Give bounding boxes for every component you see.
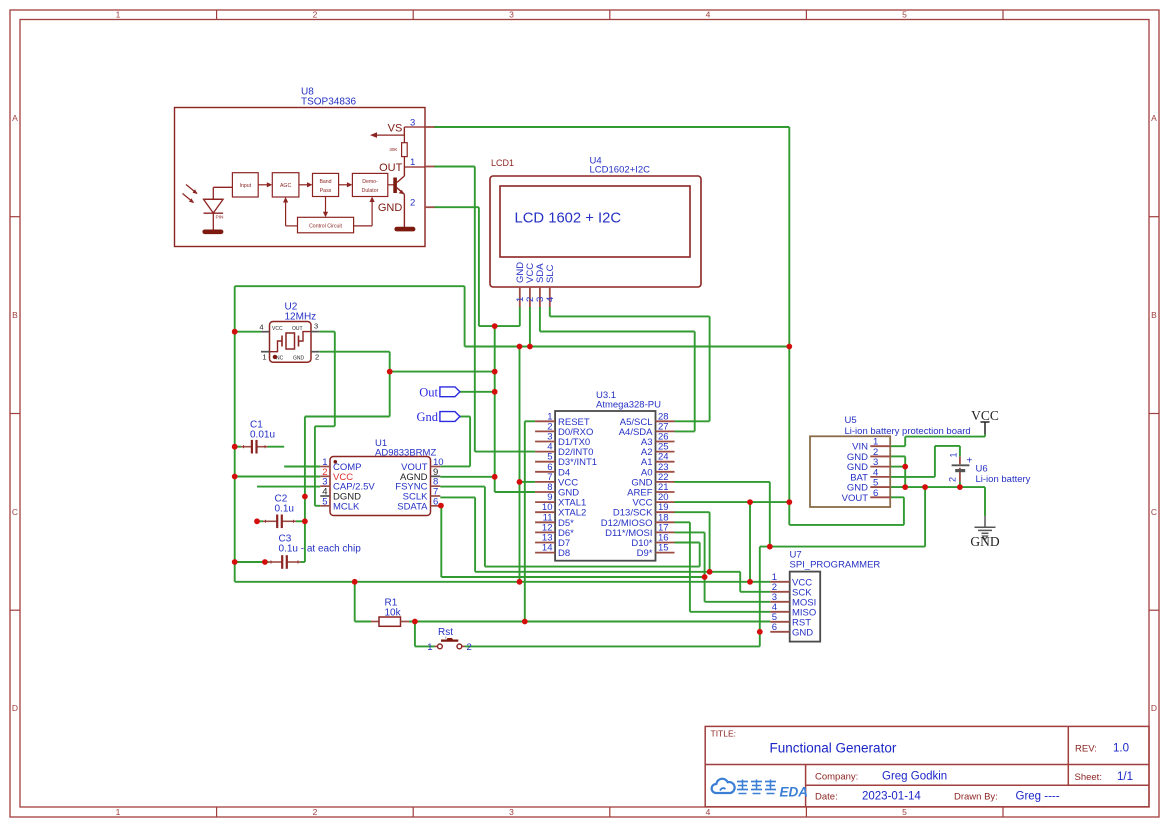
U3 pin 2 D0/RXO — [535, 421, 593, 438]
U8 Control Circuit block — [298, 217, 354, 233]
svg-text:C: C — [12, 507, 18, 517]
svg-text:1: 1 — [949, 452, 959, 457]
U5 pin 1 VIN — [852, 437, 890, 453]
U3 pin 22 GND — [631, 472, 674, 489]
svg-text:VS: VS — [388, 123, 403, 135]
IR receiver U8 TSOP34836 — [175, 87, 426, 247]
svg-text:VOUT: VOUT — [842, 493, 869, 504]
arrow Input to AGC — [258, 184, 268, 186]
svg-text:NC: NC — [276, 356, 284, 362]
svg-text:Out: Out — [419, 385, 438, 399]
svg-text:U6: U6 — [976, 464, 988, 475]
U7 pin 1 VCC — [770, 572, 812, 589]
svg-text:2: 2 — [313, 10, 318, 20]
push button Rst — [427, 627, 472, 653]
battery U6 Li-ion — [948, 452, 1031, 485]
svg-text:2: 2 — [410, 198, 415, 209]
svg-text:Li-ion battery: Li-ion battery — [976, 474, 1031, 485]
arrow Control Circuit to AGC — [283, 197, 298, 226]
svg-text:6: 6 — [433, 496, 438, 507]
U3 pin 28 A5/SCL — [620, 411, 675, 428]
U8 Demodulator block — [352, 173, 387, 196]
U3 pin 13 D7 — [535, 533, 570, 550]
svg-text:D8: D8 — [558, 548, 570, 559]
svg-text:4: 4 — [259, 323, 263, 332]
U2 pin 4 — [259, 323, 269, 332]
U3 pin 19 D13/SCK — [613, 502, 675, 519]
U3 pin 10 XTAL2 — [535, 502, 586, 519]
U3 pin 6 D4 — [535, 462, 570, 479]
U1 pin 7 SCLK — [403, 486, 441, 502]
U3 pin 25 A2 — [641, 442, 675, 459]
svg-text:3: 3 — [509, 807, 514, 817]
svg-text:VCC: VCC — [272, 326, 283, 332]
svg-text:6: 6 — [772, 622, 777, 633]
svg-text:Input: Input — [240, 183, 252, 189]
power flag VCC — [971, 408, 999, 434]
wire junctions — [232, 323, 963, 634]
title block — [705, 726, 1149, 806]
U3 pin 18 D12/MIOSO — [601, 512, 675, 529]
svg-text:3: 3 — [314, 322, 318, 331]
U2 pin 1 NC — [261, 352, 270, 362]
U5 pin 5 GND — [847, 478, 890, 494]
svg-text:1: 1 — [116, 10, 121, 20]
svg-text:Sheet:: Sheet: — [1075, 772, 1102, 783]
photodiode PIN — [183, 185, 233, 231]
transistor Q internal — [393, 167, 404, 227]
svg-text:SDATA: SDATA — [397, 501, 428, 512]
U3 pin 24 A1 — [641, 452, 675, 469]
svg-text:SPI_PROGRAMMER: SPI_PROGRAMMER — [790, 559, 881, 570]
U3 pin 20 VCC — [632, 492, 674, 509]
svg-text:REV:: REV: — [1075, 744, 1097, 755]
svg-text:Pass: Pass — [320, 188, 332, 194]
connector U7 SPI_PROGRAMMER — [790, 550, 881, 642]
U3 pin 1 RESET — [535, 411, 590, 428]
svg-text:LCD1602+I2C: LCD1602+I2C — [590, 165, 651, 176]
U7 pin 6 GND — [770, 622, 813, 639]
U1 pin 9 AGND — [400, 467, 440, 483]
svg-text:5: 5 — [902, 10, 907, 20]
LCD pin 4 SLC — [545, 264, 556, 307]
U5 pin 3 GND — [847, 457, 890, 473]
arrow Band Pass to Control Circuit — [323, 197, 328, 218]
arrow AGC to Band Pass — [299, 184, 309, 186]
svg-text:Greg ----: Greg ---- — [1016, 791, 1060, 803]
U1 pin 10 VOUT — [401, 457, 443, 473]
resistor 30K internal — [389, 127, 407, 167]
net port Out — [419, 385, 460, 399]
capacitor C3 0.1u at each chip — [269, 534, 362, 569]
U3 pin 4 D2/INT0 — [535, 442, 593, 459]
U7 pin 4 MISO — [770, 602, 816, 619]
LCD pin 1 GND — [515, 262, 526, 307]
U8 transistor ground — [394, 227, 415, 232]
svg-text:D9*: D9* — [637, 548, 653, 559]
U3 pin 11 D5* — [535, 512, 574, 529]
U8 pin VS 3 — [370, 118, 435, 138]
svg-text:A: A — [12, 113, 18, 123]
svg-text:LCD1: LCD1 — [491, 158, 514, 168]
svg-text:Band: Band — [319, 179, 331, 185]
svg-text:Dulator: Dulator — [362, 188, 379, 194]
U5 pin 2 GND — [847, 447, 890, 463]
svg-text:B: B — [12, 310, 18, 320]
svg-text:Control Circuit: Control Circuit — [309, 223, 342, 229]
ground symbol GND — [970, 516, 999, 549]
U3 pin 12 D6* — [535, 522, 574, 539]
svg-text:2: 2 — [315, 353, 319, 362]
U2 pin 3 — [311, 322, 319, 332]
svg-text:3: 3 — [410, 118, 415, 129]
U7 pin 2 SCK — [770, 582, 812, 599]
LCD module U4 LCD1602+I2C — [490, 156, 701, 288]
svg-text:B: B — [1151, 310, 1157, 320]
U3 pin 17 D11*/MOSI — [605, 522, 674, 539]
arrow Band Pass to Demodulator — [339, 184, 349, 186]
U1 pin 4 DGND — [320, 486, 361, 502]
svg-text:0.01u: 0.01u — [250, 430, 275, 441]
svg-text:4: 4 — [706, 10, 711, 20]
resistor R1 10k — [371, 598, 409, 627]
capacitor C1 0.01u — [241, 420, 275, 454]
svg-text:1/1: 1/1 — [1117, 771, 1133, 783]
U3 pin 21 AREF — [627, 482, 674, 499]
svg-text:1: 1 — [116, 807, 121, 817]
U3 pin 16 D10* — [631, 533, 674, 550]
wire net — [235, 127, 985, 646]
DDS chip U1 AD9833BRMZ — [330, 438, 436, 516]
U1 pin 6 SDATA — [397, 496, 440, 512]
U8 internal ground — [202, 230, 223, 235]
arrow Control Circuit to Demodulator — [354, 197, 375, 226]
svg-text:Greg Godkin: Greg Godkin — [882, 771, 947, 783]
svg-text:15: 15 — [658, 543, 669, 554]
svg-text:2: 2 — [948, 477, 958, 482]
U8 pin OUT 1 — [379, 157, 434, 174]
svg-text:30K: 30K — [389, 147, 398, 152]
svg-text:SLC: SLC — [545, 264, 556, 283]
EasyEDA logo — [712, 779, 808, 800]
U7 pin 3 MOSI — [770, 592, 816, 609]
crystal oscillator U2 12MHz — [270, 302, 317, 363]
svg-text:1: 1 — [410, 157, 415, 168]
svg-text:LCD 1602 + I2C: LCD 1602 + I2C — [515, 211, 622, 227]
svg-text:Demo-: Demo- — [362, 179, 378, 185]
svg-text:Functional Generator: Functional Generator — [770, 741, 897, 756]
U3 pin 14 D8 — [535, 543, 570, 560]
battery protection board U5 — [810, 415, 971, 507]
svg-text:5: 5 — [322, 496, 327, 507]
svg-text:4: 4 — [706, 807, 711, 817]
capacitor C2 0.1u — [263, 494, 296, 529]
svg-text:VCC: VCC — [971, 408, 999, 423]
svg-text:5: 5 — [902, 807, 907, 817]
U3 pin 3 D1/TX0 — [535, 432, 590, 449]
svg-text:U5: U5 — [845, 415, 857, 426]
U1 pin 2 VCC — [320, 467, 353, 483]
U7 pin 5 RST — [770, 612, 811, 629]
U5 pin 6 VOUT — [842, 488, 891, 504]
U2 NC pin marker — [273, 355, 277, 359]
U2 pin 2 — [311, 352, 319, 362]
svg-text:TSOP34836: TSOP34836 — [301, 97, 356, 108]
U8 Input block — [232, 173, 258, 197]
svg-text:2: 2 — [313, 807, 318, 817]
svg-text:A: A — [1151, 113, 1157, 123]
svg-text:6: 6 — [873, 488, 878, 499]
svg-text:MCLK: MCLK — [333, 501, 360, 512]
svg-text:GND: GND — [970, 534, 999, 549]
U3 pin 5 D3*/INT1 — [535, 452, 597, 469]
svg-text:1: 1 — [427, 642, 432, 653]
U3 pin 15 D9* — [637, 543, 675, 560]
LCD pin 2 VCC — [525, 263, 536, 307]
svg-text:OUT: OUT — [292, 326, 303, 332]
svg-text:Rst: Rst — [438, 627, 453, 638]
svg-text:Atmega328-PU: Atmega328-PU — [596, 400, 661, 411]
svg-text:2023-01-14: 2023-01-14 — [862, 791, 921, 803]
svg-text:Gnd: Gnd — [416, 410, 438, 424]
svg-text:1.0: 1.0 — [1113, 743, 1129, 755]
U3 pin 9 XTAL1 — [535, 492, 586, 509]
svg-text:TITLE:: TITLE: — [711, 729, 737, 739]
U3 pin 27 A4/SDA — [619, 421, 675, 438]
U1 pin 3 CAP/2.5V — [320, 477, 375, 493]
svg-text:C: C — [1151, 507, 1157, 517]
svg-text:14: 14 — [542, 543, 553, 554]
svg-text:2: 2 — [467, 642, 472, 653]
svg-text:4: 4 — [545, 297, 556, 302]
svg-text:+: + — [967, 456, 973, 467]
svg-text:OUT: OUT — [379, 162, 403, 174]
wire Demodulator to transistor — [388, 184, 394, 186]
svg-text:GND: GND — [293, 356, 305, 362]
svg-text:Drawn By:: Drawn By: — [954, 792, 998, 803]
svg-text:Li-ion battery protection boar: Li-ion battery protection board — [845, 426, 971, 437]
U5 pin 4 BAT — [850, 467, 890, 483]
svg-text:PIN: PIN — [216, 215, 225, 221]
U8 pin GND 2 — [378, 198, 435, 215]
svg-text:GND: GND — [792, 627, 813, 638]
svg-text:D: D — [1151, 703, 1157, 713]
U1 pin 8 FSYNC — [395, 477, 440, 493]
microcontroller U3.1 Atmega328-PU — [555, 390, 661, 561]
svg-text:1: 1 — [262, 353, 266, 362]
svg-text:EDA: EDA — [780, 785, 809, 800]
svg-text:0.1u: 0.1u — [275, 504, 294, 515]
svg-text:Company:: Company: — [815, 772, 858, 783]
U3 pin 26 A3 — [641, 432, 675, 449]
U8 AGC block — [272, 173, 299, 197]
LCD pin 3 SDA — [535, 263, 546, 307]
U1 pin 5 MCLK — [320, 496, 360, 512]
svg-text:AGC: AGC — [280, 183, 291, 189]
svg-text:D: D — [12, 703, 18, 713]
net port Gnd — [416, 410, 459, 424]
U3 pin 23 A0 — [641, 462, 675, 479]
svg-text:Date:: Date: — [815, 792, 838, 803]
U1 pin 1 COMP — [320, 457, 361, 473]
U8 Band Pass block — [313, 173, 339, 196]
svg-text:0.1u - at each chip: 0.1u - at each chip — [279, 544, 362, 555]
svg-text:GND: GND — [378, 202, 403, 214]
U3 pin 7 VCC — [535, 472, 578, 489]
U3 pin 8 GND — [535, 482, 579, 499]
svg-text:3: 3 — [509, 10, 514, 20]
